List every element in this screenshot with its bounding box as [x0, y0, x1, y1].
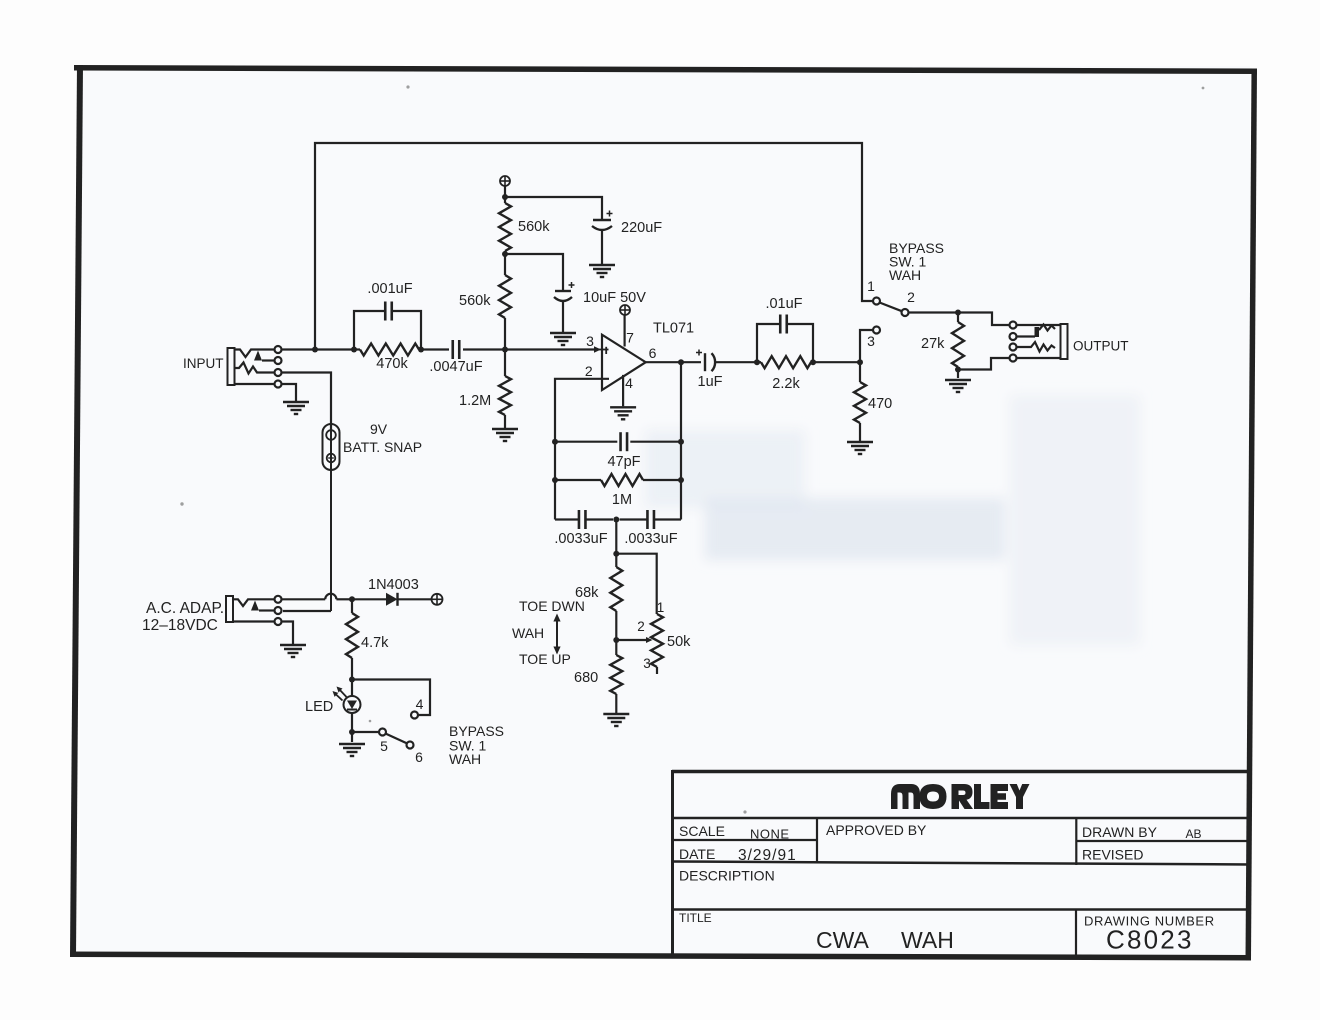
- svg-text:INPUT: INPUT: [183, 356, 224, 371]
- wire through battery snap: [330, 373, 332, 612]
- svg-text:470k: 470k: [376, 356, 408, 372]
- wire V+ to node E: [504, 186, 506, 203]
- capacitor C3 220uF plates: [593, 219, 611, 221]
- svg-text:DESCRIPTION: DESCRIPTION: [679, 868, 775, 884]
- AC jack terminal 3: [275, 618, 282, 625]
- arrowhead into pin 3: [594, 346, 601, 352]
- svg-text:50k: 50k: [667, 634, 691, 650]
- wire op-amp output to node G: [646, 361, 681, 363]
- ground AC jack: [280, 644, 306, 646]
- svg-text:WAH: WAH: [901, 927, 954, 953]
- ground R4: [492, 428, 518, 430]
- resistor R3 560k lower: [499, 275, 511, 318]
- wire node A to C1: [315, 348, 354, 350]
- svg-text:AB: AB: [1186, 827, 1202, 841]
- potentiometer VR1 50k: [651, 614, 663, 667]
- node Q junction: [349, 677, 355, 683]
- svg-text:DATE: DATE: [679, 846, 715, 862]
- wire 68k to node J: [615, 611, 617, 655]
- wire node P to diode: [352, 598, 386, 600]
- svg-text:DRAWN BY: DRAWN BY: [1082, 824, 1158, 840]
- wire node N to output jack T1: [958, 313, 1009, 326]
- resistor R10 27k: [952, 322, 964, 367]
- ground R7: [603, 713, 629, 715]
- svg-text:TOE DWN: TOE DWN: [519, 598, 585, 614]
- svg-text:C8023: C8023: [1106, 925, 1194, 955]
- resistor R7 680: [610, 655, 622, 694]
- output jack J2 terminal 4: [1010, 355, 1017, 362]
- bypass switch SW1a terminal 3: [873, 327, 880, 334]
- svg-text:WAH: WAH: [512, 625, 544, 641]
- AC jack tip wedge: [251, 601, 259, 611]
- LED D2: [344, 696, 361, 713]
- svg-text:3: 3: [586, 333, 594, 349]
- wire output T4 to body: [1017, 357, 1061, 359]
- input jack terminal 1: [275, 346, 282, 353]
- ground R9: [847, 441, 873, 443]
- input jack terminal 4: [275, 381, 282, 388]
- svg-text:4: 4: [416, 696, 424, 712]
- input jack tip wedge: [254, 351, 262, 361]
- svg-text:1N4003: 1N4003: [368, 577, 419, 593]
- wire bypass top loop: [315, 143, 873, 350]
- svg-text:LED: LED: [305, 699, 333, 715]
- node F junction: [502, 251, 508, 257]
- svg-text:10uF 50V: 10uF 50V: [583, 290, 646, 306]
- op-amp U1 TL071 triangle: [602, 335, 646, 390]
- diode D1 1N4003: [386, 593, 398, 606]
- node C junction: [418, 347, 424, 353]
- op-amp pin7 wire: [623, 315, 625, 347]
- battery snap positive terminal: [327, 454, 336, 463]
- wire AC T3 to ground: [282, 622, 294, 645]
- wire C8 to node K: [714, 361, 757, 363]
- output jack J2 terminal 2: [1010, 333, 1017, 340]
- scan speckles: [406, 85, 409, 88]
- ground C4: [550, 332, 576, 334]
- wah direction arrow: [556, 619, 558, 649]
- svg-text:TITLE: TITLE: [679, 911, 712, 925]
- node D junction: [502, 347, 508, 353]
- wire node H down: [615, 520, 617, 568]
- output jack tip contact: [1017, 335, 1036, 337]
- node R junction: [349, 729, 355, 735]
- power symbol DC out: [432, 594, 443, 605]
- output jack J2 terminal 1: [1010, 322, 1017, 329]
- node P junction: [349, 596, 355, 602]
- wire node F to C4 10uF: [505, 254, 563, 290]
- svg-text:3: 3: [867, 333, 875, 349]
- ground input jack: [283, 401, 309, 403]
- node E junction: [502, 194, 508, 200]
- node G junction: [678, 359, 684, 365]
- svg-text:1uF: 1uF: [698, 374, 723, 390]
- bypass switch SW1a terminal 2: [902, 309, 909, 316]
- resistor R9 470: [859, 362, 861, 382]
- svg-text:.0033uF: .0033uF: [624, 531, 677, 547]
- svg-text:WAH: WAH: [889, 267, 921, 283]
- svg-text:12–18VDC: 12–18VDC: [142, 617, 218, 634]
- wire R3 to main line: [504, 318, 506, 350]
- svg-text:BATT. SNAP: BATT. SNAP: [343, 439, 422, 455]
- wire input T3 to battery line: [282, 373, 332, 431]
- battery snap negative terminal: [326, 430, 336, 440]
- wire diode to power symbol: [398, 598, 432, 600]
- AC adapter jack J3 body: [226, 596, 233, 622]
- svg-text:.0047uF: .0047uF: [429, 359, 482, 375]
- svg-text:220uF: 220uF: [621, 220, 662, 236]
- svg-text:1: 1: [657, 600, 665, 615]
- wire AC T1 to hop: [282, 598, 326, 600]
- resistor R5 1M row: [555, 479, 601, 481]
- op-amp pin2 wire: [555, 379, 609, 442]
- node I junction: [613, 551, 619, 557]
- bypass switch SW1b lever: [386, 734, 407, 744]
- op-amp pin4 wire: [622, 375, 624, 406]
- AC jack terminal 1: [275, 596, 282, 603]
- ground C3: [589, 264, 615, 266]
- svg-text:47pF: 47pF: [607, 454, 640, 470]
- wire feedback right column: [680, 362, 682, 519]
- battery snap BT1 body: [323, 424, 340, 470]
- svg-text:4: 4: [625, 375, 633, 391]
- svg-text:4.7k: 4.7k: [361, 635, 389, 651]
- power symbol pin 7: [620, 305, 630, 315]
- svg-text:2: 2: [585, 363, 593, 379]
- node A junction: [312, 347, 318, 353]
- svg-text:TL071: TL071: [653, 321, 694, 337]
- resistor R1 470k: [360, 344, 419, 356]
- input jack tip contact: [235, 350, 275, 358]
- svg-text:560k: 560k: [459, 293, 491, 309]
- power symbol V+ top: [500, 176, 510, 186]
- wire feedback left column: [554, 442, 556, 520]
- svg-text:470: 470: [868, 396, 892, 412]
- svg-text:6: 6: [415, 749, 423, 765]
- svg-text:OUTPUT: OUTPUT: [1073, 339, 1129, 354]
- node K junction: [754, 359, 760, 365]
- AC jack terminal 2: [275, 607, 282, 614]
- svg-text:.01uF: .01uF: [765, 296, 802, 312]
- svg-text:A.C. ADAP.: A.C. ADAP.: [146, 600, 224, 617]
- svg-text:5: 5: [380, 738, 388, 754]
- node O junction: [955, 367, 961, 373]
- svg-text:SCALE: SCALE: [679, 823, 725, 839]
- AC jack sleeve line: [233, 620, 275, 622]
- output jack J2 terminal 3: [1010, 344, 1017, 351]
- node M junction: [857, 359, 863, 365]
- svg-text:.001uF: .001uF: [367, 281, 412, 297]
- capacitor C2 .0047uF: [451, 340, 454, 359]
- wire R2 to node F: [504, 251, 506, 275]
- svg-text:6: 6: [649, 345, 657, 361]
- wire hop to node P: [336, 598, 352, 600]
- bypass switch SW1a terminal 1: [873, 298, 880, 305]
- input jack terminal 2: [275, 357, 282, 364]
- bypass switch SW1b terminal 6: [407, 742, 414, 749]
- MORLEY logo: [891, 784, 1030, 809]
- wire node I to pot terminal 1: [616, 554, 656, 614]
- wire node G to C8: [681, 361, 701, 363]
- node B junction: [351, 347, 357, 353]
- wire C2 to node D: [463, 348, 505, 350]
- resistor R2 560k upper: [499, 203, 511, 251]
- wire node R to switch terminal 5: [352, 731, 379, 733]
- resistor R6 68k: [610, 567, 622, 611]
- input jack sleeve line: [235, 383, 275, 385]
- wire R1 to C2: [421, 348, 449, 350]
- title block outline: [672, 770, 1251, 774]
- svg-text:NONE: NONE: [750, 827, 790, 842]
- svg-text:WAH: WAH: [449, 751, 481, 767]
- op-amp pin3 plus mark: [605, 347, 607, 354]
- wire C3 to ground: [601, 230, 603, 265]
- svg-text:9V: 9V: [370, 421, 388, 437]
- input jack ring contact: [235, 363, 275, 374]
- wire wiper node J to pot: [616, 639, 646, 641]
- svg-text:REVISED: REVISED: [1082, 847, 1143, 863]
- bypass switch SW1b terminal 5: [379, 729, 386, 736]
- svg-text:APPROVED BY: APPROVED BY: [826, 822, 927, 838]
- svg-text:3: 3: [643, 656, 651, 671]
- wire node Q to switch terminal 4: [352, 680, 430, 716]
- capacitor C7 .0033uF right: [620, 518, 648, 520]
- LED emission arrows: [339, 689, 347, 698]
- wire output T1 to body: [1017, 324, 1061, 326]
- svg-text:560k: 560k: [518, 219, 550, 235]
- capacitor C8 1uF: [704, 353, 706, 371]
- input jack terminal 3: [275, 369, 282, 376]
- svg-text:.0033uF: .0033uF: [554, 531, 607, 547]
- wire node L to node M: [813, 361, 860, 363]
- ground R10: [945, 379, 971, 381]
- svg-text:3/29/91: 3/29/91: [738, 847, 797, 864]
- drawing border frame: [74, 65, 1257, 74]
- svg-text:2: 2: [907, 289, 915, 305]
- svg-text:680: 680: [574, 670, 598, 686]
- output jack ring contact: [1017, 342, 1056, 352]
- svg-text:7: 7: [626, 330, 634, 346]
- svg-text:27k: 27k: [921, 336, 945, 352]
- ground pin 4: [610, 406, 636, 408]
- node J junction: [613, 637, 619, 643]
- capacitor C9 .01uF loop: [757, 324, 780, 362]
- wire input T1 to node A: [282, 348, 316, 350]
- capacitor C1 .001uF loop: [354, 311, 385, 350]
- wire switch 2 to node N: [909, 311, 959, 313]
- wire node M to switch pole 3: [860, 330, 873, 362]
- node N junction: [955, 310, 961, 316]
- AC jack tip contact: [233, 599, 275, 606]
- capacitor C4 10uF plates: [555, 290, 571, 292]
- wire LED to node R: [351, 713, 353, 742]
- capacitor C5 47pF row: [555, 441, 617, 443]
- resistor R8 2.2k: [761, 356, 811, 368]
- bypass switch SW1a lever: [880, 303, 902, 312]
- svg-text:CWA: CWA: [816, 927, 869, 953]
- capacitor C6 .0033uF left: [555, 518, 579, 520]
- node H junction: [613, 517, 619, 523]
- node L junction: [810, 359, 816, 365]
- svg-text:2.2k: 2.2k: [772, 376, 800, 392]
- svg-text:1: 1: [867, 278, 875, 294]
- wire node D to op-amp pin 3: [505, 348, 594, 350]
- wire AC T2 to battery line: [283, 610, 331, 612]
- wire hop over battery line: [325, 594, 336, 600]
- svg-text:2: 2: [637, 619, 645, 634]
- svg-text:1M: 1M: [612, 492, 632, 508]
- ground LED switch: [339, 743, 365, 745]
- wire input sleeve to ground: [282, 384, 297, 401]
- bypass switch SW1b terminal 4: [411, 712, 418, 719]
- wire C4 to ground: [562, 301, 564, 333]
- wire node E to C3 220uF: [505, 197, 602, 219]
- output jack J2 body: [1061, 324, 1068, 359]
- input jack J1 body: [228, 348, 235, 385]
- resistor R4 1.2M: [504, 350, 506, 377]
- wire node O to output jack T4: [958, 358, 1009, 370]
- svg-text:TOE UP: TOE UP: [519, 651, 571, 667]
- svg-text:1.2M: 1.2M: [459, 393, 491, 409]
- resistor R11 4.7k: [351, 599, 353, 613]
